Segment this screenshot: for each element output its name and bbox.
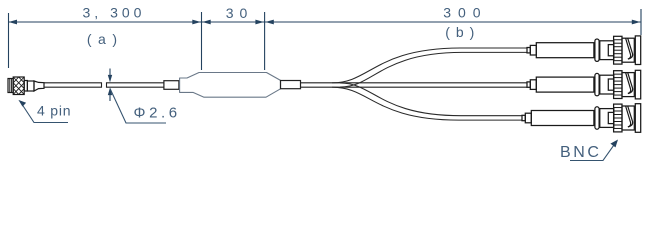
svg-text:BNC: BNC xyxy=(560,144,602,161)
leader line for phi2.6 xyxy=(110,89,166,124)
phi2.6 arrow up (below cable) xyxy=(108,88,112,101)
knurled bayonet nut xyxy=(614,36,622,64)
extension line at splitter left (x=201.5) xyxy=(201,12,203,70)
strain relief step 1 xyxy=(522,115,525,120)
extension line right (x=641) xyxy=(640,9,642,35)
bottom branch cable xyxy=(332,83,522,120)
body xyxy=(600,41,614,60)
bayonet barrel xyxy=(622,106,634,130)
arrow right end of 300 xyxy=(632,20,641,25)
svg-text:3, 300: 3, 300 xyxy=(83,5,146,21)
splitter right ferrule xyxy=(281,81,301,89)
extension line at splitter right (x=264.6) xyxy=(264,12,266,70)
cable segment before break xyxy=(44,83,102,87)
splitter left ferrule xyxy=(164,81,179,90)
svg-text:300: 300 xyxy=(443,5,487,21)
arrow right end of 3,300 xyxy=(192,20,201,25)
knurled bayonet nut xyxy=(614,71,622,99)
arrow left end of 30 xyxy=(202,20,211,25)
arrow left end of 300 xyxy=(265,20,274,25)
bayonet J-slot xyxy=(626,73,631,94)
boot xyxy=(531,111,594,126)
strain relief step 1 xyxy=(527,82,530,87)
tapered sleeve xyxy=(34,81,44,91)
top branch cable xyxy=(332,48,527,87)
dimension line xyxy=(9,21,641,23)
BNC connector middle (P2) xyxy=(527,70,641,99)
boot xyxy=(536,43,594,58)
barrel xyxy=(27,81,34,91)
splitter molded body xyxy=(180,73,281,98)
boot xyxy=(536,77,594,92)
inner sleeve xyxy=(608,112,614,123)
phi2.6 arrow down (above cable) xyxy=(108,69,112,83)
bayonet barrel xyxy=(622,38,634,62)
gasket ring xyxy=(595,73,599,95)
svg-text:(b): (b) xyxy=(445,24,480,40)
strain relief step 2 xyxy=(530,45,536,55)
strain relief step 1 xyxy=(527,48,530,53)
body xyxy=(600,75,614,94)
cable segment after break xyxy=(107,83,164,87)
middle cable from splitter to middle BNC xyxy=(301,83,528,87)
front plate xyxy=(635,104,640,133)
svg-text:(a): (a) xyxy=(87,31,124,47)
bayonet J-slot xyxy=(626,38,631,59)
svg-text:Φ2.6: Φ2.6 xyxy=(134,105,181,122)
strain relief step 2 xyxy=(525,113,531,123)
knurled bayonet nut xyxy=(614,104,622,132)
bayonet J-slot xyxy=(626,106,631,127)
4-pin connector J1 xyxy=(8,77,44,95)
BNC connector top (P1) xyxy=(527,36,641,65)
inner sleeve xyxy=(608,79,614,90)
inner sleeve xyxy=(608,45,614,56)
extension line left (x=8.5) xyxy=(8,13,10,68)
bayonet barrel xyxy=(622,73,634,97)
knurled barrel xyxy=(13,77,24,95)
leader line for BNC xyxy=(570,143,616,161)
front nut xyxy=(8,79,13,93)
front plate xyxy=(635,70,640,99)
arrow for 4 pin leader xyxy=(18,100,26,107)
svg-text:4 pin: 4 pin xyxy=(37,103,71,119)
BNC connector bottom (P3) xyxy=(522,104,641,133)
arrow right end of 30 xyxy=(255,20,264,25)
strain relief step 2 xyxy=(530,80,536,90)
gasket ring xyxy=(595,107,599,129)
arrow for BNC leader xyxy=(610,140,618,148)
body xyxy=(600,109,614,128)
front plate xyxy=(635,36,640,65)
arrow left end of 3,300 xyxy=(9,20,18,25)
ring xyxy=(24,81,27,92)
leader line for 4 pin xyxy=(21,102,69,123)
svg-text:30: 30 xyxy=(226,5,254,21)
gasket ring xyxy=(595,39,599,61)
